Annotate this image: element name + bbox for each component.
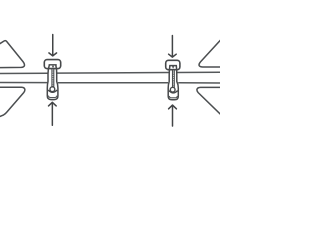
- arrow down over tie 2: [169, 36, 177, 58]
- cable tie 1 head: [44, 60, 60, 69]
- cable tie 2 head slot bar: [169, 65, 177, 67]
- cable tie 1 tail tip wedge: [52, 66, 54, 69]
- cable tie 1 inner bottom outline: [48, 96, 57, 98]
- cable tie 1 strap outline: [47, 65, 58, 100]
- cable tie 2 serration ticks: [173, 72, 174, 87]
- fin bottom-right: [197, 87, 222, 115]
- fin bottom-left: [0, 87, 25, 117]
- cable tie 1 serration ticks: [52, 71, 54, 86]
- cable tie 1 roller circle: [50, 87, 55, 92]
- fin top-right: [199, 38, 222, 67]
- shaft top line: [0, 72, 220, 73]
- cable tie 1 tail channel: [52, 69, 54, 88]
- arrow up under tie 2: [169, 105, 177, 126]
- arrow up under tie 1: [49, 102, 57, 125]
- cable tie 2 strap outline: [168, 66, 178, 100]
- cable tie 2 inner bottom outline: [169, 96, 177, 98]
- cable tie 2 roller circle: [170, 87, 175, 92]
- cable tie 1 band arc under roller: [48, 90, 57, 92]
- cable tie 2 tail tip wedge: [172, 66, 174, 69]
- shaft bottom line: [0, 82, 220, 84]
- cable tie 1 head slot bar: [49, 64, 57, 66]
- fin top-left: [0, 41, 25, 68]
- cable tie 2 band arc under roller: [169, 91, 178, 93]
- cable tie 2 head: [166, 60, 180, 69]
- arrow down over tie 1: [49, 35, 57, 56]
- cable tie 2 tail channel: [173, 70, 175, 88]
